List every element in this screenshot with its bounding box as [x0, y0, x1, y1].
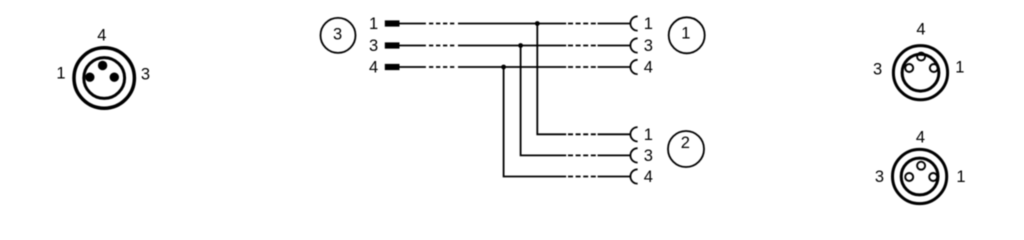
wire 4 branch solid c [598, 176, 631, 178]
socket contact arc wire 3 top [630, 38, 637, 52]
wire 3 top dashed a [429, 45, 455, 47]
socket 4 (top) [917, 53, 925, 61]
wire 1 top solid a [400, 23, 426, 25]
svg-text:4: 4 [369, 59, 378, 77]
port circle 3 [321, 18, 356, 53]
outer shell circle [893, 149, 947, 203]
svg-text:4: 4 [97, 27, 106, 45]
svg-text:3: 3 [875, 168, 884, 186]
socket contact arc wire 1 top [630, 16, 637, 30]
svg-text:4: 4 [644, 59, 653, 77]
svg-text:1: 1 [956, 168, 965, 186]
cable end ferrule wire 1 [385, 20, 400, 26]
svg-text:1: 1 [955, 59, 964, 77]
wire 4 top solid a [400, 66, 426, 68]
socket contact arc wire 3 bottom [630, 148, 637, 162]
wire 3 branch solid c [598, 154, 631, 156]
wire 1 top dashed a [429, 23, 455, 25]
svg-text:4: 4 [644, 168, 653, 186]
socket contact arc wire 4 bottom [630, 169, 637, 183]
wire 1 top dashed b [568, 23, 596, 25]
wire 3 top solid b [458, 45, 566, 47]
cable end ferrule wire 3 [385, 42, 400, 48]
wire 4 top solid b [458, 66, 566, 68]
socket 3 (left) [905, 64, 913, 72]
wire 4 branch dashed [568, 176, 596, 178]
wire 4 branch vertical [504, 67, 567, 177]
junction wire 3 [518, 43, 523, 48]
connector J1 (male plug face view, left) [74, 48, 134, 108]
outer shell circle [74, 48, 134, 108]
svg-text:1: 1 [369, 15, 378, 33]
junction wire 1 [535, 21, 540, 26]
svg-text:2: 2 [681, 134, 690, 152]
socket contact arc wire 1 bottom [630, 127, 637, 141]
wire 4 top solid c [598, 66, 631, 68]
socket 1 (right) [930, 64, 938, 72]
wire 1 branch solid c [598, 133, 631, 135]
svg-text:1: 1 [681, 24, 690, 42]
port circle 2 [668, 131, 704, 167]
svg-text:1: 1 [644, 126, 653, 144]
wire 1 top solid b [458, 23, 566, 25]
svg-text:3: 3 [333, 26, 342, 44]
wire 1 branch vertical [537, 24, 566, 135]
wire 1 branch dashed [568, 133, 596, 135]
pin 4 (top contact) [98, 61, 107, 70]
cable end ferrule wire 4 [385, 64, 400, 70]
connector J2 (female socket face view, top right) [893, 46, 947, 100]
svg-text:3: 3 [644, 147, 653, 165]
svg-text:1: 1 [644, 15, 653, 33]
svg-text:3: 3 [644, 37, 653, 55]
svg-text:3: 3 [141, 66, 150, 84]
inner insert circle [901, 158, 938, 195]
svg-text:1: 1 [56, 65, 65, 83]
socket 4 (top) [917, 162, 925, 170]
wire 3 top solid a [400, 45, 426, 47]
inner insert circle [84, 58, 125, 99]
pin 1 (left contact) [85, 73, 94, 82]
wire 3 branch dashed [568, 154, 596, 156]
socket contact arc wire 4 top [630, 60, 637, 74]
connector J3 (female socket face view, bottom right) [893, 149, 947, 203]
wire 4 top dashed a [429, 66, 455, 68]
junction wire 4 [501, 65, 506, 70]
wire 1 top solid c [598, 23, 631, 25]
svg-text:4: 4 [916, 128, 925, 146]
pin 3 (right contact) [110, 73, 119, 82]
outer shell circle [893, 46, 947, 100]
port circle 1 [669, 17, 705, 53]
socket 1 (right) [929, 173, 937, 181]
wire 4 top dashed b [568, 66, 596, 68]
wire 3 branch vertical [521, 46, 567, 156]
socket 3 (left) [905, 173, 913, 181]
wire 3 top solid c [598, 45, 631, 47]
svg-text:3: 3 [369, 37, 378, 55]
svg-text:4: 4 [916, 21, 925, 39]
inner insert circle [902, 54, 939, 91]
wire 3 top dashed b [568, 45, 596, 47]
svg-text:3: 3 [873, 60, 882, 78]
